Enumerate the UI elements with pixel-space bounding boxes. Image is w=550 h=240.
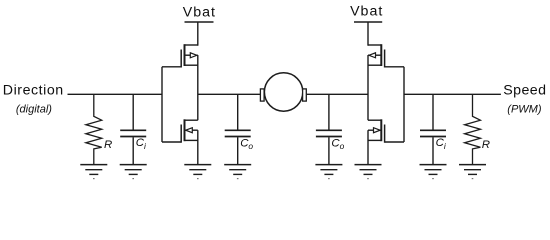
wire left output to motor: [198, 93, 261, 95]
power Vbat left rail bar: [185, 21, 214, 23]
wire gate bus right: [403, 67, 405, 142]
svg-text:(PWM): (PWM): [507, 103, 542, 115]
capacitor Co left: [225, 94, 254, 164]
svg-text:R: R: [104, 139, 112, 151]
wire main input right: [404, 93, 501, 95]
transistor Q3 PMOS high-side right: [368, 44, 404, 67]
resistor R1: [86, 94, 112, 164]
resistor R2: [465, 94, 490, 164]
ground under R2: [459, 165, 486, 179]
ground under Co left: [224, 165, 251, 179]
power Vbat right rail bar: [354, 21, 382, 23]
svg-text:Speed: Speed: [503, 83, 546, 99]
transistor Q1 PMOS high-side left: [162, 44, 198, 67]
wire gate bus left: [161, 67, 163, 142]
svg-text:Vbat: Vbat: [350, 4, 383, 20]
wire Q2 source to ground: [197, 130, 199, 164]
ground under Ci right: [420, 165, 447, 179]
svg-text:Ci: Ci: [436, 137, 447, 151]
ground under right half-bridge: [355, 165, 382, 179]
capacitor Co right: [316, 94, 345, 164]
svg-text:Co: Co: [240, 137, 253, 151]
wire Q3 source to output node: [367, 55, 369, 120]
wire motor to right output node: [306, 93, 368, 95]
wire Q4 source to ground: [367, 130, 369, 164]
transistor Q4 NMOS low-side right: [368, 119, 404, 142]
capacitor Ci left: [120, 94, 147, 164]
svg-text:R: R: [482, 139, 490, 151]
ground under left half-bridge: [184, 165, 211, 179]
capacitor Ci right: [420, 94, 447, 164]
motor M1 left brush terminal: [260, 89, 264, 101]
svg-text:Direction: Direction: [3, 83, 64, 99]
svg-text:Vbat: Vbat: [183, 4, 216, 20]
transistor Q2 NMOS low-side left: [162, 119, 198, 142]
motor M1 body: [264, 73, 302, 111]
ground under Co right: [315, 165, 342, 179]
wire main input left: [68, 93, 163, 95]
svg-text:(digital): (digital): [16, 103, 52, 115]
wire Vbat feed to Q1 drain: [197, 22, 199, 46]
ground under R1: [80, 165, 107, 179]
wire Vbat feed to Q3 drain: [367, 22, 369, 46]
wire Q1 source to output node: [197, 55, 199, 120]
motor M1 right brush terminal: [303, 89, 307, 101]
svg-text:Ci: Ci: [136, 137, 147, 151]
ground under Ci left: [120, 165, 147, 179]
svg-text:Co: Co: [331, 137, 344, 151]
